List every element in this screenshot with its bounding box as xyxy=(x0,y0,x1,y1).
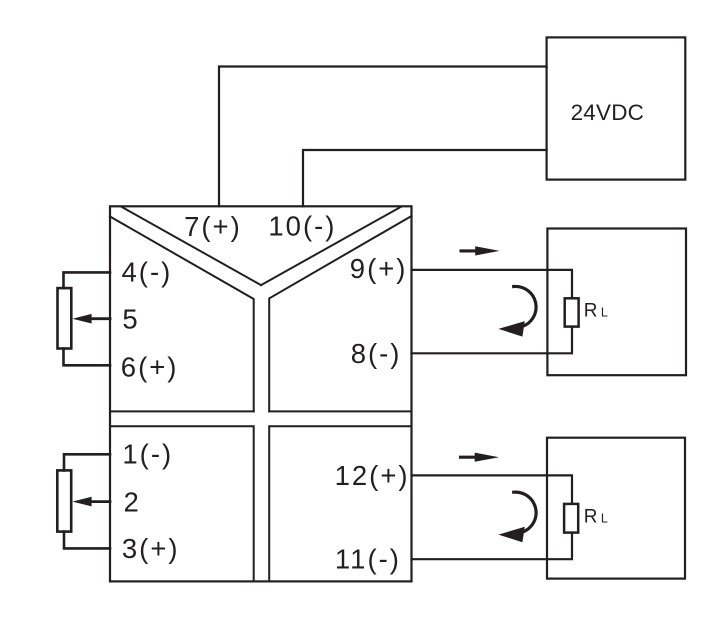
wire load 2 to terminal 11 xyxy=(412,533,573,560)
svg-text:5: 5 xyxy=(122,304,139,335)
resistor RL2 xyxy=(564,504,578,533)
divider: upper-left quadrant bottom edge xyxy=(110,410,254,412)
potentiometer P1 wire top (terminal 4) xyxy=(64,272,111,288)
wire terminal 7 to 24VDC xyxy=(219,67,547,207)
svg-text:2: 2 xyxy=(124,486,141,517)
divider: upper-right quadrant bottom edge xyxy=(269,410,411,412)
current arrowhead loop 1 xyxy=(475,246,499,255)
resistor RL1 xyxy=(565,298,579,326)
svg-text:11(-): 11(-) xyxy=(335,544,401,575)
wire terminal 10 to 24VDC xyxy=(303,150,547,206)
24VDC supply box xyxy=(547,37,686,179)
loop arrow arc 2 xyxy=(514,492,536,532)
divider: triangle left diagonal xyxy=(121,207,261,286)
svg-text:4(-): 4(-) xyxy=(122,256,173,287)
svg-text:1(-): 1(-) xyxy=(122,438,173,469)
potentiometer P1 wiper wire (terminal 5) xyxy=(89,317,110,320)
potentiometer P2 body xyxy=(57,470,71,531)
potentiometer P2 wire top (terminal 1) xyxy=(64,454,110,470)
divider: upper-left quadrant top diagonal and right edge xyxy=(110,217,254,412)
potentiometer P1 body xyxy=(58,288,72,348)
current arrow shaft loop 2 xyxy=(461,456,478,459)
load box 1 xyxy=(547,229,686,376)
current arrowhead loop 2 xyxy=(475,453,499,462)
loop arrow arc 1 xyxy=(514,286,536,326)
potentiometer P2 wiper arrowhead xyxy=(72,497,91,507)
svg-text:12(+): 12(+) xyxy=(335,460,410,491)
wire terminal 12 to load 2 xyxy=(412,475,573,504)
svg-text:10(-): 10(-) xyxy=(268,211,336,242)
potentiometer P2 wire bottom (terminal 3) xyxy=(64,532,110,549)
potentiometer P1 wire bottom (terminal 6) xyxy=(64,349,111,366)
potentiometer P1 wiper arrowhead xyxy=(72,314,91,324)
divider: triangle right diagonal xyxy=(261,207,402,286)
svg-text:3(+): 3(+) xyxy=(122,533,180,564)
module outer box xyxy=(110,206,412,581)
wire terminal 9 to load 1 xyxy=(412,270,573,298)
current arrow shaft loop 1 xyxy=(461,249,478,252)
divider: upper-right quadrant top diagonal and left edge xyxy=(269,216,411,411)
svg-text:24VDC: 24VDC xyxy=(571,100,645,125)
load box 2 xyxy=(547,438,685,579)
divider: lower-left quadrant top and right edges xyxy=(110,426,254,581)
loop arrowhead 2 xyxy=(498,527,524,543)
svg-text:8(-): 8(-) xyxy=(351,338,402,369)
svg-text:7(+): 7(+) xyxy=(184,211,242,242)
svg-text:6(+): 6(+) xyxy=(121,351,179,382)
loop arrowhead 1 xyxy=(498,321,524,337)
potentiometer P2 wiper wire (terminal 2) xyxy=(90,500,111,503)
wire load 1 to terminal 8 xyxy=(412,327,573,354)
svg-text:9(+): 9(+) xyxy=(350,253,408,284)
divider: lower-right quadrant top and left edges xyxy=(269,426,411,581)
